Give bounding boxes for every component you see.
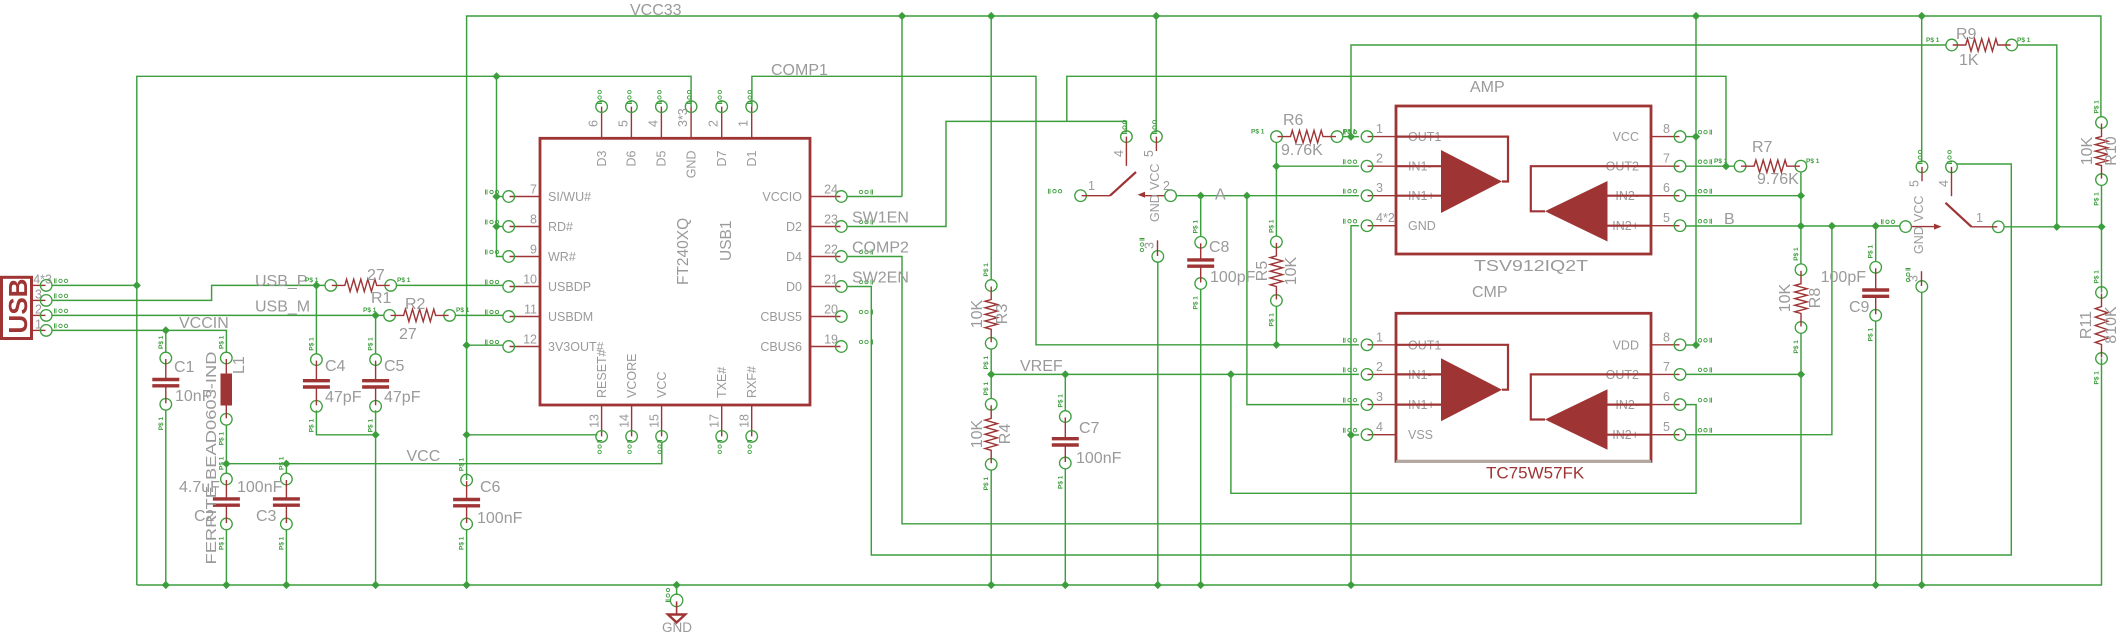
svg-text:10K: 10K bbox=[1283, 256, 1300, 285]
svg-text:5: 5 bbox=[616, 120, 630, 127]
svg-text:1: 1 bbox=[1976, 211, 1983, 225]
svg-text:R8: R8 bbox=[1807, 288, 1824, 309]
svg-text:P$ 1: P$ 1 bbox=[1868, 245, 1875, 259]
svg-text:5: 5 bbox=[1663, 420, 1670, 434]
svg-text:FT240XQ: FT240XQ bbox=[675, 218, 692, 285]
svg-text:R10: R10 bbox=[2103, 136, 2120, 165]
svg-text:D0: D0 bbox=[786, 280, 802, 294]
svg-text:2: 2 bbox=[707, 120, 721, 127]
svg-text:VCCIN: VCCIN bbox=[179, 315, 229, 332]
svg-text:L1: L1 bbox=[231, 356, 248, 374]
svg-text:15: 15 bbox=[648, 414, 662, 428]
svg-text:P$ 1: P$ 1 bbox=[1057, 394, 1064, 408]
svg-text:USB_M: USB_M bbox=[255, 299, 310, 316]
svg-text:10K: 10K bbox=[2079, 136, 2096, 165]
svg-text:P$ 1: P$ 1 bbox=[2017, 37, 2031, 44]
svg-text:4*3: 4*3 bbox=[33, 273, 52, 287]
svg-text:COMP2: COMP2 bbox=[852, 240, 909, 257]
svg-text:P$ 1: P$ 1 bbox=[397, 277, 411, 284]
svg-text:27: 27 bbox=[367, 267, 385, 284]
svg-text:P$ 1: P$ 1 bbox=[2094, 192, 2101, 206]
svg-text:P$ 1: P$ 1 bbox=[2094, 100, 2101, 114]
svg-text:R9: R9 bbox=[1956, 26, 1977, 43]
svg-text:6: 6 bbox=[587, 120, 601, 127]
svg-text:4: 4 bbox=[1937, 180, 1951, 187]
svg-text:4: 4 bbox=[1112, 150, 1126, 157]
svg-text:P$ 1: P$ 1 bbox=[983, 382, 990, 396]
svg-text:4: 4 bbox=[646, 120, 660, 127]
svg-text:GND: GND bbox=[1408, 219, 1436, 233]
svg-text:D2: D2 bbox=[786, 220, 802, 234]
svg-text:VCC: VCC bbox=[1912, 196, 1926, 222]
svg-text:USB1: USB1 bbox=[718, 221, 735, 262]
svg-text:P$ 1: P$ 1 bbox=[1343, 129, 1357, 136]
svg-text:8: 8 bbox=[530, 213, 537, 227]
svg-text:12: 12 bbox=[523, 333, 537, 347]
svg-text:P$ 1: P$ 1 bbox=[1268, 219, 1275, 233]
svg-text:9.76K: 9.76K bbox=[1281, 142, 1323, 159]
svg-text:2: 2 bbox=[1376, 152, 1383, 166]
svg-text:R5: R5 bbox=[1254, 261, 1271, 282]
svg-text:R11: R11 bbox=[2078, 311, 2095, 339]
svg-text:B: B bbox=[1724, 211, 1735, 228]
svg-text:D7: D7 bbox=[715, 150, 729, 166]
svg-text:USB_P: USB_P bbox=[255, 273, 307, 290]
svg-text:2: 2 bbox=[1163, 179, 1170, 193]
svg-text:1: 1 bbox=[1088, 179, 1095, 193]
svg-text:GND: GND bbox=[1912, 226, 1926, 254]
svg-text:D4: D4 bbox=[786, 250, 802, 264]
svg-text:3: 3 bbox=[1142, 242, 1156, 249]
svg-text:P$ 1: P$ 1 bbox=[1193, 296, 1200, 310]
svg-text:SI/WU#: SI/WU# bbox=[548, 190, 591, 204]
svg-text:3: 3 bbox=[1376, 181, 1383, 195]
svg-text:47pF: 47pF bbox=[325, 389, 362, 406]
svg-text:P$ 1: P$ 1 bbox=[368, 337, 375, 351]
svg-text:P$ 1: P$ 1 bbox=[278, 456, 285, 470]
svg-text:10: 10 bbox=[523, 273, 537, 287]
svg-text:VCCIO: VCCIO bbox=[762, 190, 802, 204]
svg-text:1: 1 bbox=[1376, 122, 1383, 136]
svg-text:C5: C5 bbox=[384, 358, 405, 375]
svg-text:VCC: VCC bbox=[1148, 164, 1162, 190]
svg-text:D5: D5 bbox=[655, 150, 669, 166]
svg-text:C1: C1 bbox=[174, 359, 195, 376]
svg-text:100nF: 100nF bbox=[477, 510, 523, 527]
svg-text:RD#: RD# bbox=[548, 220, 573, 234]
svg-text:P$ 1: P$ 1 bbox=[1268, 313, 1275, 327]
svg-text:P$ 1: P$ 1 bbox=[158, 335, 165, 349]
svg-text:10K: 10K bbox=[969, 419, 986, 448]
svg-text:3: 3 bbox=[1376, 390, 1383, 404]
svg-text:VCC: VCC bbox=[1613, 130, 1639, 144]
svg-text:14: 14 bbox=[618, 414, 632, 428]
svg-text:2: 2 bbox=[35, 302, 42, 316]
svg-text:USB: USB bbox=[3, 279, 33, 334]
svg-text:P$ 1: P$ 1 bbox=[218, 335, 225, 349]
svg-text:5: 5 bbox=[1908, 180, 1922, 187]
svg-text:2: 2 bbox=[1376, 360, 1383, 374]
svg-text:P$ 1: P$ 1 bbox=[2094, 270, 2101, 284]
svg-text:9.76K: 9.76K bbox=[1757, 171, 1799, 188]
svg-text:100nF: 100nF bbox=[1076, 450, 1122, 467]
svg-text:GND: GND bbox=[662, 620, 692, 635]
svg-text:VCORE: VCORE bbox=[625, 354, 639, 398]
svg-text:P$ 1: P$ 1 bbox=[218, 432, 225, 446]
svg-text:100pF: 100pF bbox=[1210, 269, 1256, 286]
svg-text:100nF: 100nF bbox=[237, 479, 283, 496]
svg-text:P$ 1: P$ 1 bbox=[983, 356, 990, 370]
svg-text:VCC: VCC bbox=[655, 372, 669, 398]
svg-text:P$ 1: P$ 1 bbox=[1793, 247, 1800, 261]
svg-text:RESET#: RESET# bbox=[595, 349, 609, 398]
svg-text:47pF: 47pF bbox=[384, 389, 421, 406]
svg-text:C6: C6 bbox=[480, 479, 501, 496]
svg-text:WR#: WR# bbox=[548, 250, 576, 264]
svg-text:10K: 10K bbox=[969, 299, 986, 328]
svg-text:P$ 1: P$ 1 bbox=[218, 536, 225, 550]
svg-text:P$ 1: P$ 1 bbox=[983, 477, 990, 491]
svg-text:P$ 1: P$ 1 bbox=[1806, 158, 1820, 165]
svg-text:5: 5 bbox=[1142, 150, 1156, 157]
svg-text:CMP: CMP bbox=[1472, 284, 1508, 301]
svg-text:SW1EN: SW1EN bbox=[852, 210, 909, 227]
svg-text:VREF: VREF bbox=[1020, 358, 1063, 375]
svg-text:VCC: VCC bbox=[407, 448, 441, 465]
svg-text:R3: R3 bbox=[994, 304, 1011, 325]
svg-text:7: 7 bbox=[530, 183, 537, 197]
svg-text:18: 18 bbox=[738, 414, 752, 428]
svg-text:P$ 1: P$ 1 bbox=[1714, 158, 1728, 165]
svg-text:P$ 1: P$ 1 bbox=[278, 536, 285, 550]
svg-text:AMP: AMP bbox=[1470, 79, 1505, 96]
svg-text:8: 8 bbox=[1663, 122, 1670, 136]
svg-text:SW2EN: SW2EN bbox=[852, 270, 909, 287]
svg-text:810K: 810K bbox=[2103, 306, 2120, 344]
svg-text:4: 4 bbox=[1376, 420, 1383, 434]
svg-text:C3: C3 bbox=[256, 508, 277, 525]
svg-text:19: 19 bbox=[824, 333, 838, 347]
svg-text:P$ 1: P$ 1 bbox=[2094, 371, 2101, 385]
svg-text:A: A bbox=[1215, 187, 1226, 204]
svg-text:R2: R2 bbox=[405, 296, 426, 313]
svg-text:C4: C4 bbox=[325, 358, 346, 375]
svg-text:9: 9 bbox=[530, 243, 537, 257]
svg-text:P$ 1: P$ 1 bbox=[158, 417, 165, 431]
svg-text:C7: C7 bbox=[1079, 420, 1100, 437]
svg-text:3*3: 3*3 bbox=[676, 108, 690, 127]
svg-text:P$ 1: P$ 1 bbox=[1926, 37, 1940, 44]
svg-text:P$ 1: P$ 1 bbox=[456, 307, 470, 314]
svg-text:CBUS5: CBUS5 bbox=[760, 310, 802, 324]
svg-text:P$ 1: P$ 1 bbox=[308, 419, 315, 433]
svg-text:R4: R4 bbox=[997, 424, 1014, 445]
svg-text:7: 7 bbox=[1663, 152, 1670, 166]
svg-text:100pF: 100pF bbox=[1821, 269, 1867, 286]
svg-text:P$ 1: P$ 1 bbox=[1193, 220, 1200, 234]
svg-text:21: 21 bbox=[824, 273, 838, 287]
svg-text:1: 1 bbox=[737, 120, 751, 127]
svg-text:VSS: VSS bbox=[1408, 428, 1433, 442]
svg-text:GND: GND bbox=[684, 151, 698, 179]
svg-text:3: 3 bbox=[35, 287, 42, 301]
svg-text:10K: 10K bbox=[1777, 283, 1794, 312]
svg-text:11: 11 bbox=[524, 303, 537, 317]
svg-text:D3: D3 bbox=[595, 150, 609, 166]
svg-text:D6: D6 bbox=[625, 150, 639, 166]
svg-text:RXF#: RXF# bbox=[745, 366, 759, 398]
svg-text:17: 17 bbox=[708, 414, 722, 428]
svg-text:VDD: VDD bbox=[1613, 338, 1639, 352]
svg-text:5: 5 bbox=[1663, 211, 1670, 225]
svg-text:P$ 1: P$ 1 bbox=[1057, 475, 1064, 489]
svg-text:TSV912IQ2T: TSV912IQ2T bbox=[1474, 258, 1588, 275]
svg-text:P$ 1: P$ 1 bbox=[1251, 129, 1265, 136]
svg-text:P$ 1: P$ 1 bbox=[305, 277, 319, 284]
svg-text:27: 27 bbox=[399, 326, 417, 343]
svg-text:TXE#: TXE# bbox=[715, 367, 729, 398]
svg-text:R1: R1 bbox=[371, 290, 392, 307]
svg-text:C8: C8 bbox=[1209, 239, 1230, 256]
svg-text:TC75W57FK: TC75W57FK bbox=[1486, 464, 1585, 483]
svg-text:D1: D1 bbox=[745, 150, 759, 166]
svg-text:1K: 1K bbox=[1959, 52, 1979, 69]
svg-text:GND: GND bbox=[1148, 194, 1162, 222]
svg-text:1: 1 bbox=[1376, 330, 1383, 344]
svg-text:20: 20 bbox=[824, 303, 838, 317]
svg-text:P$ 1: P$ 1 bbox=[1793, 340, 1800, 354]
svg-text:P$ 1: P$ 1 bbox=[363, 307, 377, 314]
svg-text:P$ 1: P$ 1 bbox=[218, 456, 225, 470]
svg-text:7: 7 bbox=[1663, 360, 1670, 374]
svg-text:22: 22 bbox=[824, 243, 838, 257]
svg-text:VCC33: VCC33 bbox=[630, 2, 682, 19]
svg-text:6: 6 bbox=[1663, 390, 1670, 404]
svg-text:1: 1 bbox=[35, 317, 42, 331]
svg-text:6: 6 bbox=[1663, 181, 1670, 195]
svg-text:C9: C9 bbox=[1849, 299, 1870, 316]
svg-text:P$ 1: P$ 1 bbox=[308, 337, 315, 351]
svg-text:P$ 1: P$ 1 bbox=[1868, 328, 1875, 342]
svg-text:R7: R7 bbox=[1752, 139, 1773, 156]
svg-text:P$ 1: P$ 1 bbox=[459, 457, 466, 471]
svg-text:24: 24 bbox=[824, 183, 838, 197]
svg-text:4*2: 4*2 bbox=[1376, 211, 1395, 225]
svg-text:P$ 1: P$ 1 bbox=[983, 263, 990, 277]
svg-text:P$ 1: P$ 1 bbox=[459, 536, 466, 550]
svg-text:COMP1: COMP1 bbox=[771, 62, 828, 79]
svg-text:23: 23 bbox=[824, 213, 838, 227]
svg-text:R6: R6 bbox=[1283, 112, 1304, 129]
svg-text:CBUS6: CBUS6 bbox=[760, 340, 802, 354]
svg-text:USBDP: USBDP bbox=[548, 280, 591, 294]
svg-text:USBDM: USBDM bbox=[548, 310, 593, 324]
svg-text:8: 8 bbox=[1663, 330, 1670, 344]
svg-text:P$ 1: P$ 1 bbox=[368, 419, 375, 433]
svg-text:13: 13 bbox=[588, 414, 602, 428]
